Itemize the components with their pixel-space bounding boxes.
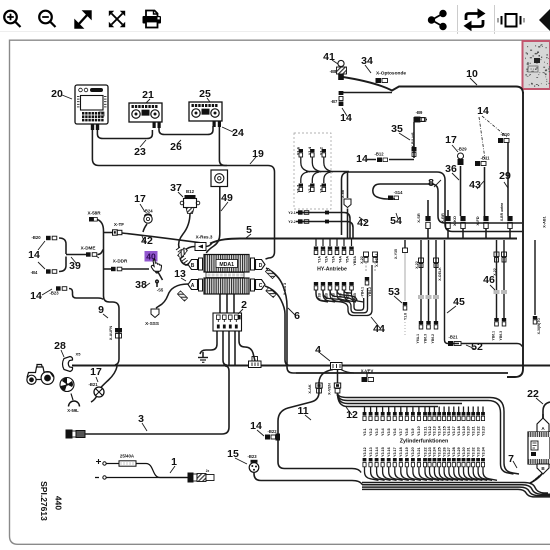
svg-text:15: 15 <box>227 448 239 460</box>
svg-text:Y3.12: Y3.12 <box>363 447 367 457</box>
svg-text:HY-Antriebe: HY-Antriebe <box>317 267 347 273</box>
svg-text:Y3.18: Y3.18 <box>457 426 461 436</box>
svg-text:49: 49 <box>221 192 233 204</box>
svg-text:17: 17 <box>134 193 146 205</box>
svg-text:35: 35 <box>391 123 403 135</box>
svg-text:2: 2 <box>241 299 247 311</box>
svg-text:17: 17 <box>445 134 457 146</box>
svg-text:X-FD: X-FD <box>475 216 480 225</box>
svg-text:Y3.10: Y3.10 <box>417 426 421 436</box>
svg-text:Y4A: Y4A <box>338 256 342 263</box>
svg-text:X-22: X-22 <box>415 261 419 269</box>
svg-text:38: 38 <box>135 279 147 291</box>
svg-text:-B4: -B4 <box>31 270 38 275</box>
svg-text:-B22: -B22 <box>267 429 277 434</box>
svg-text:Y1.8: Y1.8 <box>404 313 408 320</box>
svg-text:MDA1: MDA1 <box>219 262 234 268</box>
svg-text:Y3.7: Y3.7 <box>399 428 403 436</box>
svg-text:X-Optosonde: X-Optosonde <box>376 71 406 77</box>
svg-text:41: 41 <box>323 51 335 63</box>
svg-text:53: 53 <box>388 286 400 298</box>
svg-text:52: 52 <box>471 341 483 353</box>
svg-text:X-AK: X-AK <box>308 384 312 394</box>
svg-text:19: 19 <box>252 148 264 160</box>
svg-text:Y3.8: Y3.8 <box>405 428 409 436</box>
svg-text:X-VEV: X-VEV <box>361 368 374 373</box>
svg-text:X-AUFN: X-AUFN <box>109 326 113 341</box>
svg-text:-YB4.1: -YB4.1 <box>361 287 365 298</box>
svg-text:Y3.19: Y3.19 <box>462 426 466 436</box>
svg-text:Y3.22: Y3.22 <box>476 426 480 436</box>
svg-text:24: 24 <box>232 127 244 139</box>
svg-text:Y3.6: Y3.6 <box>393 428 397 436</box>
svg-text:-B29: -B29 <box>457 147 467 152</box>
svg-text:22: 22 <box>527 388 539 400</box>
svg-text:Y3.9: Y3.9 <box>411 428 415 436</box>
svg-text:Y3.18: Y3.18 <box>399 447 403 457</box>
svg-text:9: 9 <box>98 304 104 316</box>
svg-text:42: 42 <box>141 235 153 247</box>
svg-text:Y2.2: Y2.2 <box>288 220 295 224</box>
svg-text:45: 45 <box>453 296 465 308</box>
svg-text:14: 14 <box>250 420 262 432</box>
svg-text:Y3.5: Y3.5 <box>387 428 391 436</box>
svg-text:3: 3 <box>138 413 144 425</box>
svg-text:42: 42 <box>357 217 369 229</box>
svg-text:14: 14 <box>477 105 489 117</box>
svg-text:Y3.13: Y3.13 <box>369 447 373 457</box>
svg-text:Y3.16: Y3.16 <box>447 426 451 436</box>
svg-text:10: 10 <box>466 68 478 80</box>
svg-text:36: 36 <box>445 163 457 175</box>
svg-text:X-22: X-22 <box>360 256 364 264</box>
svg-text:Y3.23: Y3.23 <box>481 426 485 436</box>
svg-text:6: 6 <box>294 310 300 322</box>
svg-text:X-Res.3: X-Res.3 <box>196 235 213 240</box>
svg-text:2x: 2x <box>206 469 210 473</box>
svg-text:Y3.14: Y3.14 <box>438 425 442 436</box>
svg-text:X-88: X-88 <box>341 190 345 198</box>
svg-text:Y3.33: Y3.33 <box>476 447 480 457</box>
svg-text:5: 5 <box>246 224 252 236</box>
svg-text:Y1.3: Y1.3 <box>318 184 323 193</box>
svg-text:Y3.3: Y3.3 <box>375 428 379 436</box>
svg-text:Y3.12: Y3.12 <box>428 426 432 436</box>
svg-text:X-DDR: X-DDR <box>113 259 128 264</box>
svg-text:14: 14 <box>356 153 368 165</box>
svg-text:440: 440 <box>54 496 64 510</box>
svg-text:Y3.15: Y3.15 <box>442 426 446 436</box>
svg-text:13: 13 <box>174 268 186 280</box>
svg-text:43: 43 <box>469 179 481 191</box>
svg-text:Y3.14: Y3.14 <box>375 446 379 457</box>
svg-text:Y3.2: Y3.2 <box>369 428 373 436</box>
svg-text:X-Y35: X-Y35 <box>394 249 398 259</box>
svg-text:-B23: -B23 <box>247 454 257 459</box>
svg-text:Y3.4: Y3.4 <box>381 427 385 436</box>
svg-text:-B21: -B21 <box>88 382 98 387</box>
svg-text:Y3.25: Y3.25 <box>438 447 442 457</box>
svg-text:Y3.20: Y3.20 <box>411 447 415 457</box>
svg-text:8: 8 <box>428 177 434 189</box>
svg-text:-B20: -B20 <box>31 235 41 240</box>
svg-text:X-OELA: X-OELA <box>375 253 379 267</box>
svg-text:Y3.29: Y3.29 <box>457 447 461 457</box>
svg-text:12: 12 <box>346 409 358 421</box>
svg-text:YB5A: YB5A <box>353 256 357 266</box>
svg-text:Y1.7: Y1.7 <box>295 184 300 193</box>
svg-text:20: 20 <box>51 88 63 100</box>
svg-text:Y3.19: Y3.19 <box>405 447 409 457</box>
svg-text:Y2.1: Y2.1 <box>288 211 295 215</box>
svg-text:X-SSS: X-SSS <box>145 321 159 326</box>
svg-text:14: 14 <box>28 249 40 261</box>
svg-text:B: B <box>191 263 195 269</box>
svg-text:YB6.1: YB6.1 <box>492 331 496 341</box>
svg-text:X-59L: X-59L <box>67 408 79 413</box>
svg-text:SPI.27613: SPI.27613 <box>39 481 49 521</box>
svg-text:Y3.20: Y3.20 <box>467 426 471 436</box>
svg-text:-B10: -B10 <box>500 132 510 137</box>
svg-text:Y3.11: Y3.11 <box>423 427 427 436</box>
svg-text:X-BR: X-BR <box>440 213 445 223</box>
svg-text:Y3.27: Y3.27 <box>447 447 451 457</box>
svg-text:X5: X5 <box>76 352 82 357</box>
svg-text:39: 39 <box>69 260 81 272</box>
svg-text:Y6A.1: Y6A.1 <box>416 334 420 344</box>
svg-text:17: 17 <box>90 366 102 378</box>
svg-text:Y3.21: Y3.21 <box>417 447 421 457</box>
svg-text:Y3.24: Y3.24 <box>433 446 437 457</box>
svg-text:X-VEN: X-VEN <box>328 383 332 395</box>
svg-text:Y3A: Y3A <box>331 256 335 263</box>
svg-text:X-3I(W)TG: X-3I(W)TG <box>537 318 541 335</box>
svg-text:YB4.2: YB4.2 <box>368 287 372 297</box>
svg-text:11: 11 <box>297 405 308 417</box>
svg-text:Y3.13: Y3.13 <box>433 426 437 436</box>
svg-text:14: 14 <box>340 112 352 124</box>
svg-text:Y3.23: Y3.23 <box>428 447 432 457</box>
svg-text:Y1A: Y1A <box>317 256 321 263</box>
svg-text:C: C <box>259 283 263 289</box>
svg-text:X-TF: X-TF <box>114 222 124 227</box>
svg-text:Y3.31: Y3.31 <box>467 447 471 457</box>
svg-text:B12: B12 <box>186 189 195 194</box>
svg-text:YB6.2: YB6.2 <box>431 334 435 344</box>
svg-text:-B11: -B11 <box>481 156 491 161</box>
svg-text:X-DME: X-DME <box>81 246 96 251</box>
svg-text:Y3.28: Y3.28 <box>452 447 456 457</box>
svg-text:21: 21 <box>142 89 154 101</box>
svg-text:Y3.21: Y3.21 <box>472 426 476 436</box>
svg-text:-B9: -B9 <box>416 110 423 115</box>
svg-text:Y1.5: Y1.5 <box>307 184 312 193</box>
svg-text:-B7: -B7 <box>331 99 338 104</box>
svg-text:-S14: -S14 <box>394 190 404 195</box>
svg-text:26: 26 <box>170 141 182 153</box>
svg-text:X-BR unten: X-BR unten <box>500 203 504 221</box>
svg-text:Y3.17: Y3.17 <box>452 426 456 436</box>
svg-text:Y3.22: Y3.22 <box>423 447 427 457</box>
svg-text:A: A <box>191 283 195 289</box>
svg-text:X-CA 3: X-CA 3 <box>283 283 287 295</box>
svg-text:1: 1 <box>171 456 177 468</box>
svg-text:X-22: X-22 <box>493 268 497 276</box>
svg-text:Y3.15: Y3.15 <box>381 447 385 457</box>
svg-text:Y3.34: Y3.34 <box>481 446 485 457</box>
svg-text:X-AB1: X-AB1 <box>543 216 547 227</box>
svg-text:Y3.30: Y3.30 <box>462 447 466 457</box>
svg-text:-B12: -B12 <box>374 152 384 157</box>
svg-text:D: D <box>259 263 263 269</box>
svg-text:34: 34 <box>361 55 373 67</box>
svg-text:Y3.1: Y3.1 <box>363 428 367 436</box>
svg-text:Y3.16: Y3.16 <box>387 447 391 457</box>
svg-text:Y3.26: Y3.26 <box>442 447 446 457</box>
svg-text:-B8: -B8 <box>330 69 337 74</box>
svg-text:44: 44 <box>373 323 385 335</box>
svg-text:-S5: -S5 <box>157 288 164 293</box>
svg-text:23: 23 <box>134 146 146 158</box>
svg-text:54: 54 <box>390 215 402 227</box>
svg-text:X-SR: X-SR <box>416 213 421 223</box>
svg-text:7: 7 <box>508 453 514 465</box>
svg-text:Y5A: Y5A <box>345 256 349 263</box>
svg-text:X-KO: X-KO <box>452 216 457 226</box>
svg-text:Y3.32: Y3.32 <box>472 447 476 457</box>
svg-text:28: 28 <box>54 340 66 352</box>
svg-text:X-BU-id6: X-BU-id6 <box>411 132 415 147</box>
svg-text:Y3.17: Y3.17 <box>393 447 397 457</box>
svg-text:YB6.3: YB6.3 <box>424 334 428 344</box>
svg-text:Zylinderfunktionen: Zylinderfunktionen <box>400 439 449 445</box>
svg-text:25: 25 <box>199 88 211 100</box>
svg-text:4: 4 <box>315 344 321 356</box>
svg-text:14: 14 <box>30 290 42 302</box>
svg-text:-B24: -B24 <box>143 209 153 214</box>
svg-text:29: 29 <box>499 170 511 182</box>
svg-text:Y2A: Y2A <box>324 256 328 263</box>
svg-text:-B21: -B21 <box>448 335 458 340</box>
svg-text:37: 37 <box>170 182 182 194</box>
svg-text:X-58R: X-58R <box>87 211 101 216</box>
svg-text:X-OELK: X-OELK <box>438 267 442 281</box>
svg-text:YB6.3: YB6.3 <box>499 331 503 341</box>
svg-text:-B23: -B23 <box>49 291 59 296</box>
svg-text:25/40A: 25/40A <box>120 454 135 459</box>
